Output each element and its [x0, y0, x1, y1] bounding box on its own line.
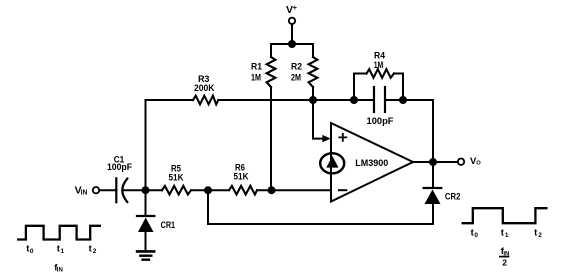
- svg-text:51K: 51K: [169, 173, 184, 184]
- wire R1 leg down to minus-input line: [270, 87, 272, 190]
- svg-text:IN: IN: [57, 268, 63, 274]
- svg-text:R1: R1: [251, 61, 263, 72]
- node Vin terminal: [75, 184, 100, 196]
- wire bottom feedback: [208, 190, 433, 224]
- wire Vin to C1: [99, 189, 116, 191]
- svg-text:0: 0: [474, 232, 478, 239]
- waveform input square wave: [18, 226, 100, 274]
- resistor R6: [229, 163, 257, 195]
- svg-text:1M: 1M: [251, 72, 261, 83]
- wire plus-input from R2 junction: [313, 100, 331, 142]
- svg-text:1M: 1M: [374, 60, 384, 71]
- op-amp U1 LM3900: [331, 123, 413, 202]
- svg-text:51K: 51K: [234, 172, 249, 183]
- waveform output square wave (half frequency): [463, 208, 547, 267]
- resistor R4: [354, 51, 403, 101]
- junction R5/R6 node: [204, 186, 212, 194]
- svg-text:2M: 2M: [291, 72, 301, 83]
- wire V+ to top rail: [291, 24, 293, 44]
- svg-text:200K: 200K: [194, 83, 215, 94]
- svg-text:O: O: [476, 161, 481, 167]
- svg-text:0: 0: [30, 248, 34, 255]
- junction R1 leg on minus line: [268, 186, 276, 194]
- svg-text:+: +: [293, 3, 298, 12]
- svg-text:100pF: 100pF: [107, 162, 132, 173]
- current source (Norton) inside op-amp: [320, 153, 344, 173]
- wire op-amp output: [413, 161, 458, 163]
- junction input node: [142, 186, 150, 194]
- node Vo terminal: [458, 156, 482, 167]
- svg-text:CR2: CR2: [445, 191, 461, 202]
- svg-text:LM3900: LM3900: [355, 158, 388, 169]
- ground: [137, 251, 154, 259]
- svg-text:2: 2: [502, 257, 507, 267]
- diode CR1: [137, 190, 176, 251]
- svg-text:IN: IN: [81, 189, 88, 196]
- svg-text:CR1: CR1: [161, 220, 176, 231]
- resistor R2: [291, 44, 317, 100]
- wire C1 to input node: [125, 189, 163, 191]
- junction top rail: [288, 40, 296, 48]
- resistor R5: [162, 163, 191, 194]
- junction R4 left: [350, 96, 358, 104]
- wire main rail left segment: [146, 99, 194, 101]
- svg-text:1: 1: [61, 248, 65, 255]
- junction R4 right: [399, 96, 407, 104]
- svg-text:2: 2: [93, 248, 97, 255]
- svg-text:R2: R2: [291, 61, 302, 72]
- capacitor C2 100pF (feedback): [367, 87, 394, 127]
- diode CR2: [424, 162, 461, 224]
- node V+ terminal: [286, 3, 298, 24]
- resistor R3: [193, 74, 218, 104]
- capacitor C1 100pF: [107, 155, 132, 203]
- wire R5 to R6: [191, 189, 229, 191]
- svg-text:2: 2: [538, 232, 542, 239]
- resistor R1: [251, 44, 275, 87]
- wire R6 to op-amp minus input: [257, 189, 331, 191]
- junction R2 on rail: [309, 96, 317, 104]
- wire input node up to rail: [145, 100, 147, 190]
- wire top rail: [271, 43, 313, 45]
- wire main rail mid segment: [218, 99, 374, 101]
- wire rail right segment to output: [385, 100, 433, 162]
- svg-text:1: 1: [505, 232, 509, 239]
- junction output node: [429, 158, 437, 166]
- svg-text:100pF: 100pF: [367, 116, 394, 127]
